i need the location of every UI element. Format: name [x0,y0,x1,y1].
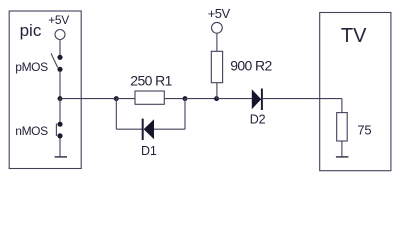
svg-text:75: 75 [357,123,371,138]
svg-text:900 R2: 900 R2 [230,58,272,74]
junction: pic output node [58,96,63,101]
label D1 [141,144,157,158]
svg-text:pic: pic [20,21,42,40]
diode D1 [143,119,154,140]
wire: D2 to TV [262,98,342,100]
wire: +5V terminal to pMOS switch [59,40,61,56]
junction node A [114,96,119,101]
wire: pic output to node A [60,98,116,100]
label D2 [250,113,266,127]
junction node B [183,96,188,101]
svg-text:TV: TV [341,25,367,47]
svg-text:D2: D2 [250,113,266,127]
wire: node B to node C [185,98,217,100]
wire: +5V terminal to R2 [216,33,218,51]
label 900 R2 [230,58,272,74]
svg-text:+5V: +5V [48,13,69,27]
wire: D1 branch right segment [154,128,185,130]
wire: pMOS to output node [59,72,61,99]
wire: node A down to D1 branch [115,99,117,130]
ground (TV) [336,156,349,158]
transistor switch nMOS [56,122,62,139]
wire: nMOS to ground [59,138,61,157]
transistor switch pMOS [51,53,63,72]
wire: node B down to D1 branch [184,99,186,130]
svg-text:250 R1: 250 R1 [130,73,172,89]
wire: R1 to node B [164,98,185,100]
label 75 [357,123,371,138]
junction node C [214,96,219,101]
resistor R1 [135,91,164,104]
+5V supply terminal circle (pic) [55,30,65,40]
label +5V (R2 supply) [208,6,231,21]
svg-text:D1: D1 [141,144,157,158]
diode D2 [252,89,262,111]
label pMOS [15,60,48,74]
svg-text:+5V: +5V [208,6,231,21]
label TV [341,25,367,47]
label +5V (pic supply) [48,13,69,27]
wire: output node to nMOS [59,99,61,122]
ground (pic) [55,156,67,158]
label 250 R1 [130,73,172,89]
resistor R2 [211,51,222,82]
wire: node A to R1 [116,98,135,100]
svg-text:pMOS: pMOS [15,60,48,74]
+5V supply terminal circle (R2) [212,22,223,33]
wire: node C to D2 [217,98,252,100]
wire: R2 to node C [216,83,218,99]
wire: resistor 75 to ground [341,141,343,157]
label nMOS [15,124,48,138]
wire: down to terminating resistor [341,99,343,113]
IC box pic [9,11,81,169]
wire: D1 branch left segment [116,128,142,130]
resistor 75 (termination) [337,113,348,141]
label pic [20,21,42,40]
svg-text:nMOS: nMOS [15,124,48,138]
box TV [320,13,391,171]
